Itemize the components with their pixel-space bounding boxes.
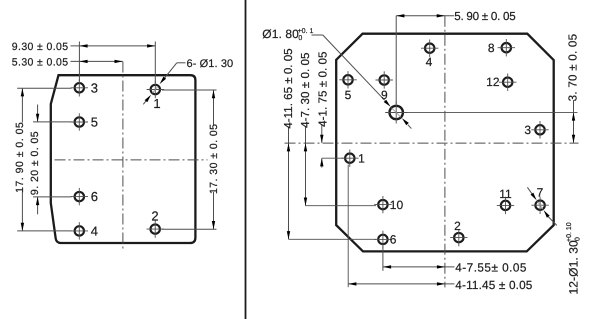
hole H8 (498, 39, 515, 56)
dimension 5.30 +-0.05 line (71, 60, 123, 63)
svg-text:1: 1 (153, 96, 160, 111)
big hole dia1.80 (385, 102, 407, 124)
svg-text:4-7.55± 0.05: 4-7.55± 0.05 (455, 260, 527, 274)
svg-text:10: 10 (390, 198, 404, 212)
label 12 (486, 75, 500, 89)
svg-text:+0. 10: +0. 10 (566, 222, 573, 242)
hole H6r (374, 231, 391, 248)
dimension 9.30 text (12, 41, 69, 53)
svg-text:2: 2 (151, 208, 158, 223)
dimension 4-1.75 text (317, 51, 330, 126)
svg-text:7: 7 (537, 186, 544, 200)
svg-text:11: 11 (499, 187, 512, 201)
svg-text:9. 20 ± 0. 05: 9. 20 ± 0. 05 (29, 131, 41, 195)
label 2r (454, 219, 461, 233)
svg-text:9: 9 (381, 88, 388, 102)
label 3 (91, 81, 98, 96)
hole H5r (339, 71, 356, 88)
hole H5 (71, 113, 88, 130)
leader dia1.80 (312, 35, 412, 129)
hole H2r (450, 229, 467, 246)
label 10 (390, 198, 404, 212)
dimension 9.20 +-0.05 line (33, 105, 72, 215)
hole H6 (71, 188, 88, 205)
label 7 (537, 186, 544, 200)
dimension 17.30 +-0.05 line (162, 90, 217, 229)
dimension 4-11.45 +-0.05 line (348, 165, 454, 288)
svg-text:3. 70 ± 0. 05: 3. 70 ± 0. 05 (566, 34, 579, 102)
dimension 17.90 +-0.05 line (17, 88, 71, 231)
label 6 (91, 189, 98, 204)
hole H10 (374, 196, 391, 213)
dimension 9.20 text (29, 131, 41, 195)
svg-text:0: 0 (575, 237, 582, 241)
svg-text:4-11. 65 ± 0. 05: 4-11. 65 ± 0. 05 (282, 48, 295, 128)
svg-text:6: 6 (390, 233, 397, 247)
dimension 17.90 text (14, 122, 26, 193)
svg-text:3: 3 (524, 123, 531, 137)
hole H3r (531, 121, 548, 138)
svg-text:3: 3 (91, 81, 98, 96)
right horizontal centerline (285, 142, 579, 144)
left horizontal centerline (55, 159, 208, 161)
label 1r (358, 151, 365, 165)
hole H3 (71, 79, 88, 96)
dimension 3.70 text (566, 34, 579, 102)
label 5 (91, 115, 98, 130)
dimension 4-7.30 +-0.05 line (304, 127, 376, 206)
leader 12-dia1.30 (527, 187, 556, 225)
svg-text:4: 4 (91, 224, 98, 239)
svg-text:1: 1 (358, 151, 365, 165)
svg-text:5. 90 ± 0. 05: 5. 90 ± 0. 05 (454, 10, 515, 23)
dimension 4-11.65 text (282, 48, 295, 128)
left vertical centerline (122, 62, 124, 250)
dimension 4-11.45 text (455, 278, 533, 292)
svg-text:4-1. 75 ± 0. 05: 4-1. 75 ± 0. 05 (317, 51, 330, 126)
hole H7 (531, 197, 548, 214)
label 4 (91, 224, 98, 239)
hole H4r (421, 40, 438, 57)
hole H1 (147, 81, 164, 98)
svg-text:9.30 ± 0.05: 9.30 ± 0.05 (12, 41, 69, 53)
svg-text:4: 4 (426, 55, 433, 69)
dimension 4-1.75 +-0.05 line (320, 125, 344, 168)
hole H1r (341, 150, 358, 167)
dimension 4-7.55 text (455, 260, 527, 274)
hole H9 (376, 71, 393, 88)
dimension 5.90 +-0.05 line (396, 14, 454, 104)
svg-text:4-7. 30 ± 0. 05: 4-7. 30 ± 0. 05 (299, 52, 312, 127)
svg-text:8: 8 (488, 41, 495, 55)
svg-text:+0. 1: +0. 1 (298, 28, 314, 35)
svg-text:17. 90 ± 0. 05: 17. 90 ± 0. 05 (14, 122, 26, 193)
label 6r (390, 233, 397, 247)
svg-text:5: 5 (345, 88, 352, 102)
dimension 4-7.55 +-0.05 line (383, 246, 455, 271)
svg-text:0: 0 (298, 35, 302, 42)
svg-text:Ø1. 80: Ø1. 80 (262, 27, 299, 41)
label 11 (499, 187, 512, 201)
svg-text:4-11.45 ± 0.05: 4-11.45 ± 0.05 (455, 278, 533, 292)
svg-text:6- Ø1. 30: 6- Ø1. 30 (187, 58, 234, 70)
label dia1.80 text (262, 27, 313, 42)
dimension 17.30 text (208, 124, 220, 194)
label 9 (381, 88, 388, 102)
dimension 3.70 +-0.05 line (406, 100, 578, 143)
hole H12 (499, 74, 516, 91)
label 6-dia1.30 text (187, 58, 234, 70)
dimension 5.30 text (12, 57, 69, 69)
dimension 5.90 text (454, 10, 515, 23)
dimension 4-7.30 text (299, 52, 312, 127)
label 8 (488, 41, 495, 55)
svg-text:5: 5 (91, 115, 98, 130)
svg-text:6: 6 (91, 189, 98, 204)
svg-text:12-Ø1. 30: 12-Ø1. 30 (567, 240, 581, 294)
hole H11 (497, 197, 514, 214)
right vertical centerline (444, 16, 446, 288)
svg-text:5.30 ± 0.05: 5.30 ± 0.05 (12, 57, 69, 69)
label 2 (151, 208, 158, 223)
svg-text:2: 2 (454, 219, 461, 233)
hole H2 (147, 220, 164, 237)
dimension 9.30 +-0.05 line (71, 42, 156, 84)
right plate outline (336, 34, 554, 252)
leader 6-dia1.30 (143, 63, 185, 105)
svg-text:17. 30 ± 0. 05: 17. 30 ± 0. 05 (208, 124, 220, 194)
label 5r (345, 88, 352, 102)
dimension 4-11.65 +-0.05 line (287, 127, 376, 240)
hole H4 (71, 222, 88, 239)
label 3r (524, 123, 531, 137)
label 12-dia1.30 text (566, 222, 582, 294)
divider line between views (245, 0, 247, 319)
label 4r (426, 55, 433, 69)
label 1 (153, 96, 160, 111)
svg-text:12: 12 (486, 75, 500, 89)
left plate outline (51, 75, 196, 243)
